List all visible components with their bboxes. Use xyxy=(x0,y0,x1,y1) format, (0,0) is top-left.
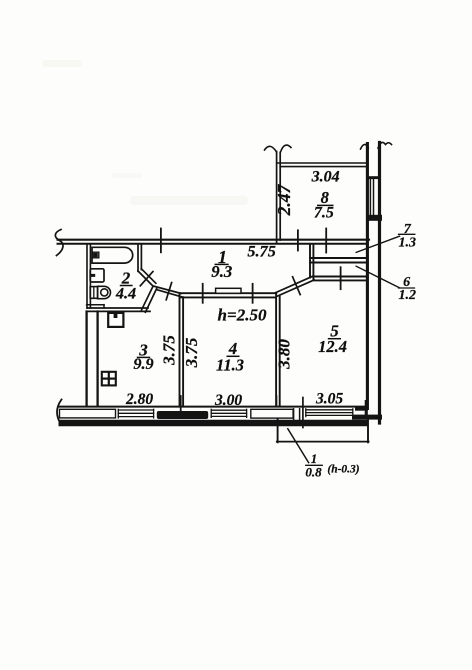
wire: bathroom right wall xyxy=(137,245,139,272)
wire: bathroom bottom wall notch xyxy=(87,304,104,306)
wire: room 3 left outer wall xyxy=(85,312,87,407)
node: dimension tick x276 bottom wall xyxy=(275,396,277,406)
wire: room 7 bottom wall xyxy=(310,257,367,259)
bathtub xyxy=(92,247,133,263)
svg-text:12.4: 12.4 xyxy=(318,337,347,356)
svg-text:3.75: 3.75 xyxy=(160,335,179,366)
wire: bathroom bottom wall xyxy=(87,307,148,309)
wall break squiggle bottom-left xyxy=(57,400,62,426)
bottom wall solid pier xyxy=(157,411,208,419)
room 6 label xyxy=(399,275,417,303)
wire: bathroom left wall xyxy=(86,245,88,309)
wire: room 4 top wall xyxy=(180,292,276,294)
window in right wall: frame bars xyxy=(367,176,380,179)
wire: right outer wall inner line xyxy=(366,144,369,409)
node: door tick on room 5 diagonal xyxy=(293,277,301,295)
node: door tick on room 3 entrance diagonal xyxy=(166,283,171,300)
node: dimension tick x161 on top wall xyxy=(160,229,162,253)
bottom wall blind panel middle xyxy=(251,409,293,418)
electrical box in room 3 xyxy=(102,372,116,386)
node: dimension tick x252 hallway bottom wall xyxy=(252,284,254,303)
window W1 bottom wall xyxy=(118,409,153,418)
node: dimension tick x340 room 6 bottom wall xyxy=(340,267,342,289)
svg-text:1.2: 1.2 xyxy=(399,288,417,303)
wire: balcony leader line xyxy=(288,429,309,463)
bottom-right wall step block xyxy=(365,400,368,419)
node: dimension tick x180 bottom wall xyxy=(180,396,182,412)
balcony left edge xyxy=(277,419,279,442)
balcony bottom edge xyxy=(277,441,369,443)
vent box below bathroom xyxy=(108,313,123,327)
svg-text:9.3: 9.3 xyxy=(211,262,232,281)
room 3 label xyxy=(133,341,153,374)
bottom wall thick base line xyxy=(59,420,369,427)
wire: top wall lower line xyxy=(58,243,367,245)
svg-text:7.5: 7.5 xyxy=(314,205,334,222)
balcony right edge xyxy=(367,420,369,443)
svg-text:9.9: 9.9 xyxy=(133,354,153,373)
window W3 bottom wall xyxy=(306,409,353,417)
door lintel rectangle room 4 xyxy=(216,288,241,293)
wire: right outer wall outer line xyxy=(378,143,381,424)
svg-text:(h-0.3): (h-0.3) xyxy=(327,464,359,476)
svg-text:3.05: 3.05 xyxy=(315,390,343,407)
wire: rooms 7/6 left wall xyxy=(309,245,311,278)
svg-text:h=2.50: h=2.50 xyxy=(218,306,267,325)
balcony label 1 / 0.8 (h-0.3) xyxy=(305,452,359,479)
wall break hooks room 8 left wall top xyxy=(265,146,277,151)
wire: diagonal wall hallway to room 5 xyxy=(276,276,313,292)
toilet bowl xyxy=(98,286,111,298)
wire: room 6 bottom wall xyxy=(313,276,367,278)
window W2 bottom wall xyxy=(211,409,246,417)
wall break squiggle top-left xyxy=(55,230,63,256)
wire: room 8 left wall xyxy=(276,152,278,244)
svg-text:3.00: 3.00 xyxy=(214,392,242,409)
bottom wall pier lines xyxy=(293,409,295,420)
wall break hooks right wall top xyxy=(361,144,369,149)
wire: wall between rooms 3 and 4 xyxy=(179,293,181,406)
svg-text:3.75: 3.75 xyxy=(182,337,201,368)
svg-text:3.80: 3.80 xyxy=(275,339,294,370)
node: dimension tick x303 bottom wall xyxy=(302,398,304,428)
wire: bathroom corner diagonal wall xyxy=(138,271,153,286)
wire: diagonal wall into room 3 xyxy=(142,286,153,310)
svg-text:5.75: 5.75 xyxy=(247,241,276,260)
bathtub tap xyxy=(93,252,99,258)
room 4 label xyxy=(216,339,244,374)
svg-text:11.3: 11.3 xyxy=(216,356,244,375)
node: dimension tick x298 on top wall xyxy=(297,230,299,250)
room 2 label xyxy=(115,268,136,302)
svg-text:4.4: 4.4 xyxy=(115,283,136,302)
svg-text:1.3: 1.3 xyxy=(398,236,416,251)
svg-text:2.80: 2.80 xyxy=(125,391,153,408)
room 1 label xyxy=(211,247,232,281)
node: dimension tick x326 on top wall xyxy=(325,229,327,253)
room 7 label xyxy=(398,222,416,251)
bottom wall blind panel left xyxy=(60,409,116,418)
scan ghost smudges xyxy=(42,60,248,205)
svg-text:0.8: 0.8 xyxy=(305,465,322,480)
sink xyxy=(90,269,104,282)
toilet cistern xyxy=(90,287,97,299)
window in right wall: pane lines xyxy=(369,179,371,215)
room 8 label xyxy=(314,188,334,222)
svg-text:3.04: 3.04 xyxy=(311,168,340,185)
wire: bottom wall top line xyxy=(59,406,368,408)
wire: diagonal wall to room 4 corner xyxy=(153,286,181,293)
room 5 label xyxy=(318,322,347,356)
wire: room 8 top wall xyxy=(278,162,367,164)
wire: leader line room 7 label xyxy=(356,236,399,252)
wire: leader line room 6 label xyxy=(356,266,399,288)
wire: wall between rooms 4 and 5 xyxy=(275,295,277,407)
node: dimension tick x202 hallway bottom wall xyxy=(202,284,204,303)
svg-text:2.47: 2.47 xyxy=(274,183,294,216)
wire: top wall upper line xyxy=(58,239,370,241)
node: door tick on bathroom diagonal xyxy=(140,272,153,286)
